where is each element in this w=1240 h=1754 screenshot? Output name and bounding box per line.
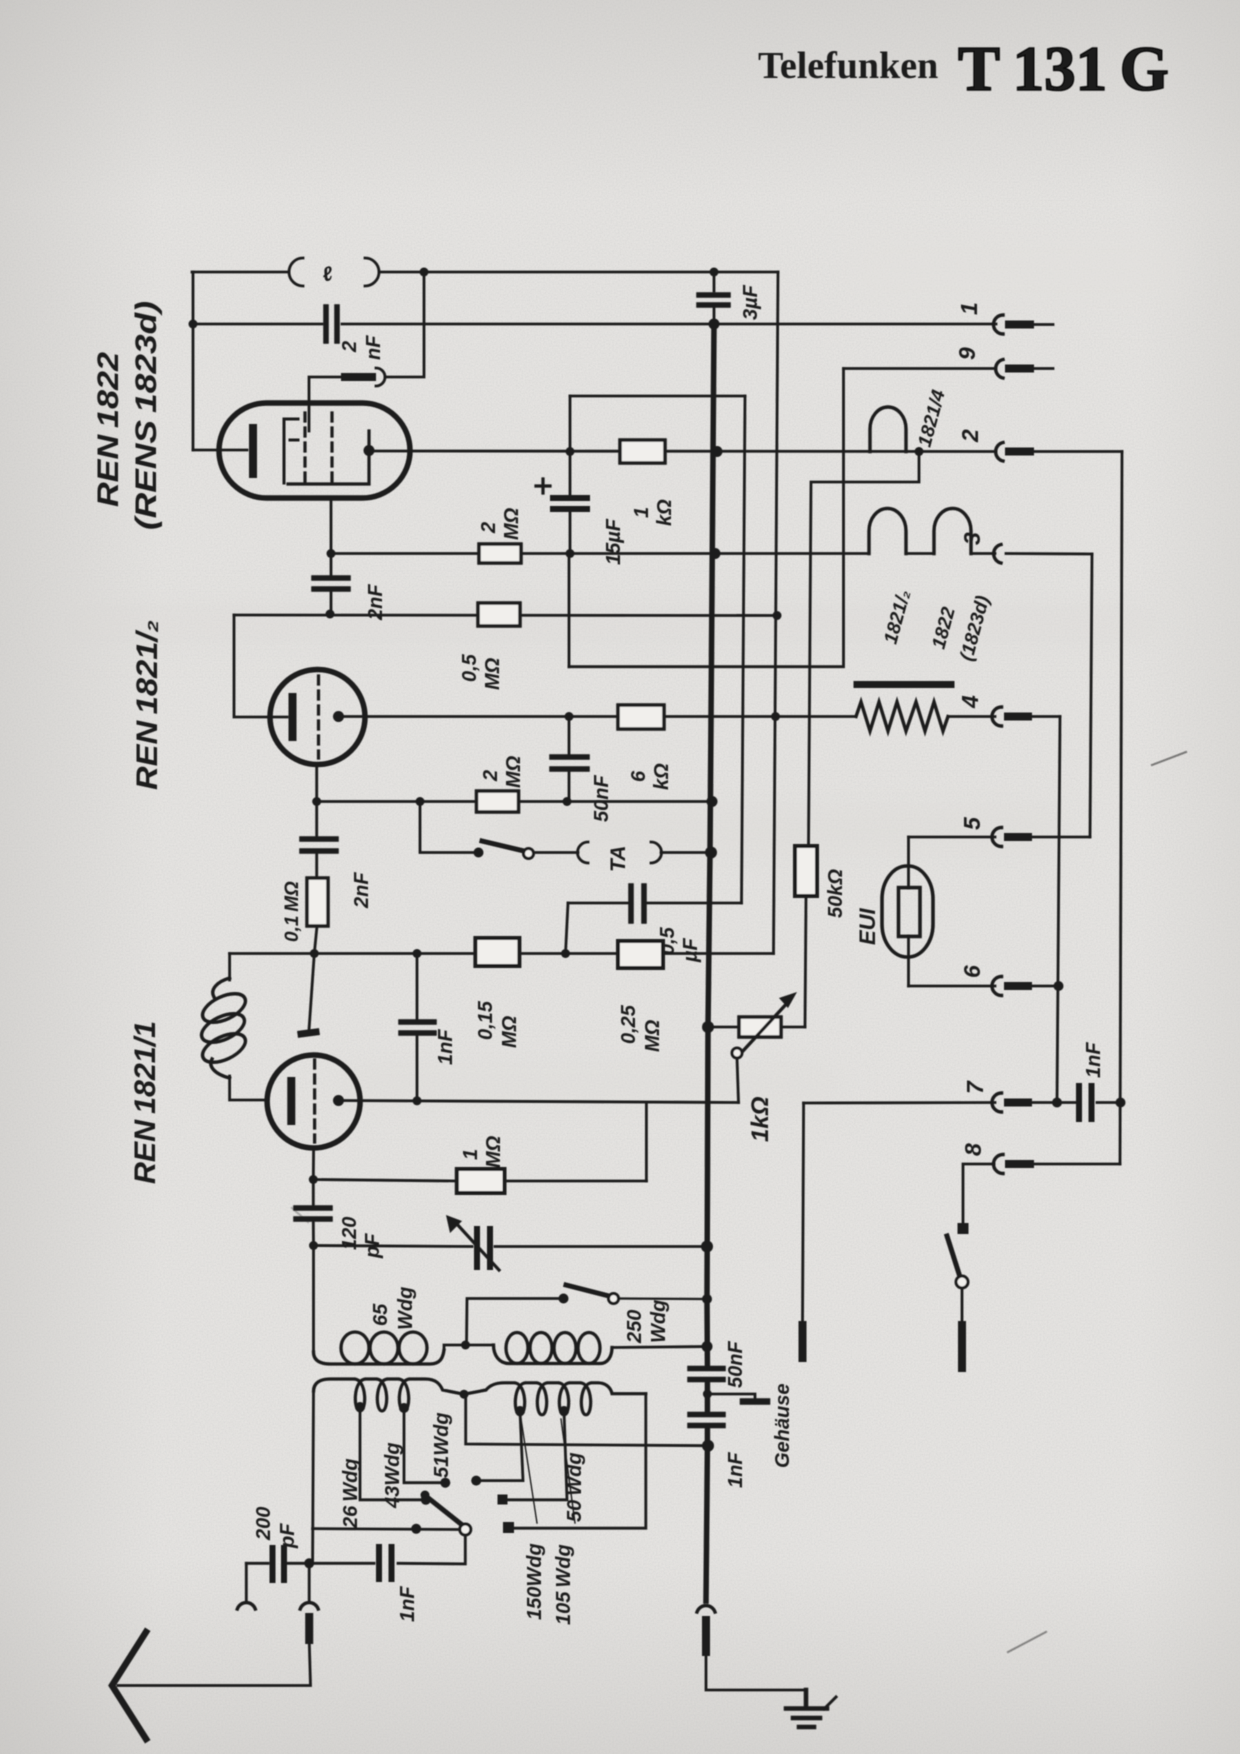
resistor 6kohm bbox=[618, 705, 664, 729]
node anode rail 1k left bbox=[566, 447, 575, 456]
wire heater rail bbox=[331, 552, 995, 555]
capacitor 1nF bus plates bbox=[690, 1415, 723, 1426]
node contact 26wdg bbox=[421, 1495, 431, 1505]
variable capacitor plates bbox=[477, 1229, 490, 1267]
svg-text:1nF: 1nF bbox=[1083, 1042, 1105, 1078]
svg-text:MΩ: MΩ bbox=[483, 1135, 505, 1168]
switch mains lever bbox=[947, 1236, 960, 1277]
socket 6 arc bbox=[992, 977, 1002, 996]
wire EVI bottom lead bbox=[907, 936, 910, 986]
wire bus main bbox=[706, 324, 714, 1601]
svg-text:150Wdg: 150Wdg bbox=[524, 1543, 546, 1620]
wire TA pivot to jack bbox=[534, 851, 578, 854]
svg-text:pF: pF bbox=[277, 1523, 299, 1549]
svg-text:2nF: 2nF bbox=[351, 872, 373, 909]
node switch2 bus bbox=[702, 1294, 712, 1304]
svg-text:(RENS 1823d): (RENS 1823d) bbox=[130, 301, 163, 530]
jack L right arc bbox=[365, 258, 379, 286]
svg-text:50nF: 50nF bbox=[725, 1341, 747, 1388]
wire tube3 bottom lead bbox=[312, 1148, 315, 1180]
node grid rail3 0,5uF bbox=[561, 949, 570, 958]
wire chassis lead bbox=[706, 1652, 806, 1690]
node 6k left junction bbox=[565, 712, 574, 721]
capacitor 50nF bus plates bbox=[690, 1369, 723, 1380]
wire 250wdg to bus bbox=[612, 1347, 707, 1348]
svg-text:7: 7 bbox=[962, 1080, 988, 1094]
wire TA switch branch bbox=[420, 802, 479, 853]
resistor 0,25Mohm bbox=[618, 941, 663, 968]
node bus pot bbox=[702, 1021, 714, 1033]
potentiometer arrow bbox=[742, 1000, 790, 1052]
socket 8 pin bbox=[1009, 1160, 1030, 1168]
grid cap jack arc bbox=[376, 368, 385, 386]
socket 7 pin bbox=[1008, 1099, 1028, 1107]
svg-text:8: 8 bbox=[960, 1143, 986, 1156]
node 1nF anode rail bbox=[413, 1096, 422, 1105]
switch1 lever tip bbox=[421, 1491, 430, 1500]
svg-text:2: 2 bbox=[480, 770, 502, 782]
node tube2 grid-leak junction bbox=[312, 797, 321, 806]
svg-text:1: 1 bbox=[956, 302, 982, 315]
wire tube2 bottom lead bbox=[315, 765, 318, 802]
svg-text:T 131 G: T 131 G bbox=[958, 34, 1169, 104]
svg-text:5: 5 bbox=[959, 816, 985, 830]
capacitor 2nF second plates bbox=[314, 578, 348, 589]
potentiometer arrowhead bbox=[779, 992, 797, 1008]
switch1 lever bbox=[427, 1497, 461, 1524]
heater coil 1821-4 bbox=[870, 407, 906, 452]
wire heater drop to frame bbox=[568, 554, 571, 667]
switch1 pivot bbox=[460, 1524, 471, 1535]
node 120pF junction bbox=[309, 1175, 318, 1184]
wire 50k feed from heater node bbox=[809, 452, 920, 847]
wire tuning rail bbox=[314, 1246, 708, 1247]
wire zigzag rail left bbox=[776, 715, 857, 718]
wire socket3 drop bbox=[1090, 554, 1092, 837]
node second rail bus bbox=[709, 319, 720, 330]
svg-text:EUI: EUI bbox=[855, 907, 880, 945]
capacitor 3uF plates bbox=[699, 295, 728, 305]
capacitor 1nF t7 plates bbox=[1079, 1086, 1092, 1119]
svg-text:50kΩ: 50kΩ bbox=[825, 869, 847, 918]
socket chassis pin bbox=[702, 1620, 710, 1652]
capacitor 2nF top plates bbox=[326, 307, 337, 341]
svg-text:REN 1821/₂: REN 1821/₂ bbox=[131, 620, 164, 790]
wire zigzag to socket4 bbox=[948, 715, 995, 718]
wire grid frame left bbox=[234, 615, 287, 717]
resistor mains zigzag bbox=[856, 702, 948, 731]
tube EVI envelope bbox=[882, 866, 933, 957]
tube3 grid cap tick bbox=[301, 1032, 316, 1034]
artifact pencil mark 2 bbox=[1008, 1632, 1046, 1652]
svg-text:200: 200 bbox=[253, 1507, 275, 1541]
coil 26-43-51Wdg bbox=[314, 1379, 465, 1411]
switch TA lever bbox=[482, 841, 524, 851]
wire loop right vertical bbox=[742, 396, 746, 903]
capacitor 50nF plates bbox=[552, 757, 587, 769]
wire grid rail3 bbox=[230, 952, 774, 955]
wire grid rail 0,5M bbox=[234, 614, 777, 617]
socket 6 pin bbox=[1008, 982, 1028, 990]
socket 1 tail bbox=[1030, 323, 1053, 326]
svg-text:1nF: 1nF bbox=[725, 1452, 747, 1488]
socket chassis arc bbox=[697, 1606, 715, 1612]
antenna plug pin bbox=[305, 1617, 313, 1640]
capacitor 120pF plates bbox=[296, 1208, 330, 1219]
wire top rail right bbox=[379, 271, 778, 274]
socket 1 pin bbox=[1009, 321, 1030, 329]
wire antenna jack drop bbox=[308, 1563, 311, 1600]
svg-text:0,15: 0,15 bbox=[475, 1000, 497, 1040]
wire 2Mohm rail bbox=[317, 800, 712, 803]
svg-text:MΩ: MΩ bbox=[642, 1019, 664, 1052]
svg-text:1: 1 bbox=[631, 507, 653, 518]
wire anode rail to socket2 bbox=[369, 450, 996, 453]
potentiometer 1kohm body bbox=[739, 1017, 781, 1037]
node tube3 anode bbox=[333, 1095, 344, 1106]
socket 3 arc bbox=[994, 545, 1001, 564]
resistor 2Mohm top bbox=[479, 544, 521, 563]
node gehaeuse junction bbox=[703, 1390, 712, 1399]
tube REN1821-2 envelope bbox=[270, 670, 365, 765]
socket 7 arc bbox=[992, 1093, 1002, 1112]
svg-text:MΩ: MΩ bbox=[503, 755, 525, 788]
wire 50k bottom to pot bbox=[805, 896, 806, 1027]
coil 65Wdg bbox=[314, 1332, 445, 1364]
wire bus top segment bbox=[713, 272, 716, 324]
svg-text:3µF: 3µF bbox=[740, 284, 762, 320]
wire 120pF leads bbox=[312, 1180, 315, 1246]
wire gehaeuse branch bbox=[707, 1394, 755, 1399]
node contact 105wdg bbox=[498, 1495, 508, 1505]
svg-text:2: 2 bbox=[478, 522, 500, 534]
svg-text:9: 9 bbox=[954, 347, 980, 360]
resistor 2Mohm second bbox=[477, 791, 519, 812]
node TA switch contact bbox=[474, 848, 484, 858]
wire 1Mohm rail bbox=[313, 1180, 646, 1182]
resistor 1kohm anode bbox=[620, 440, 665, 463]
socket 8 arc bbox=[994, 1155, 1004, 1174]
wire bus to pot bbox=[708, 1026, 739, 1029]
socket 2 arc bbox=[996, 443, 1003, 462]
svg-text:51Wdg: 51Wdg bbox=[431, 1412, 453, 1478]
wire 0,1Mohm to grid rail bbox=[314, 926, 317, 954]
svg-text:Wdg: Wdg bbox=[395, 1287, 417, 1330]
resistor 0,5Mohm bbox=[478, 603, 520, 626]
capacitor 15uF plates bbox=[553, 498, 587, 509]
variable capacitor arrowhead bbox=[446, 1215, 462, 1233]
wire terminal5 bbox=[909, 836, 996, 839]
socket 9 tail bbox=[1030, 367, 1053, 370]
wire antenna lead bbox=[118, 1640, 311, 1686]
node lower coils link bbox=[460, 1390, 469, 1399]
svg-text:REN 1822: REN 1822 bbox=[92, 352, 125, 507]
switch TA pivot bbox=[524, 849, 534, 859]
socket 9 arc bbox=[996, 360, 1003, 379]
node terminal2 heater junction bbox=[915, 447, 924, 456]
wire tube1 cathode lead bbox=[193, 449, 247, 452]
capacitor 1nF antenna plates bbox=[379, 1547, 392, 1579]
svg-text:0,1 MΩ: 0,1 MΩ bbox=[282, 881, 303, 942]
jack antenna right arc bbox=[300, 1603, 318, 1609]
socket 6 tail bbox=[1028, 985, 1059, 988]
svg-text:Gehäuse: Gehäuse bbox=[772, 1384, 794, 1468]
tube1 grid dashed lines bbox=[305, 413, 332, 488]
socket 4 pin bbox=[1008, 713, 1028, 721]
node top bus junction bbox=[710, 268, 719, 277]
switch mains contact bbox=[958, 1223, 969, 1234]
wire 65wdg to node bbox=[444, 1345, 494, 1349]
svg-text:105 Wdg: 105 Wdg bbox=[553, 1544, 575, 1625]
heater coil 1822 bbox=[934, 508, 971, 553]
node tube1 anode bbox=[364, 445, 375, 456]
wire pot wiper drop bbox=[737, 1058, 739, 1103]
node tuning rail bus bbox=[701, 1241, 713, 1253]
wire terminal6 bbox=[909, 985, 996, 988]
wire switch mains lead bbox=[961, 1288, 964, 1325]
svg-text:6: 6 bbox=[628, 770, 650, 782]
wire tap2 43wdg bbox=[404, 1408, 445, 1483]
resistor 1Mohm bbox=[457, 1169, 505, 1193]
coil 250Wdg bbox=[494, 1333, 613, 1364]
label plus bbox=[536, 479, 550, 493]
capacitor 1nF tube3 plates bbox=[401, 1022, 434, 1033]
tube1 anode structure bbox=[288, 431, 369, 484]
wire tap 105wdg bbox=[503, 1411, 567, 1500]
wire 15uF branch vertical bbox=[569, 396, 572, 554]
wire right top corner down bbox=[774, 272, 779, 954]
node second rail left bbox=[189, 320, 198, 329]
svg-text:1nF: 1nF bbox=[397, 1586, 419, 1622]
wire 1k-15uF top loop bbox=[570, 395, 745, 398]
node zigzag rail T bbox=[771, 712, 780, 721]
svg-text:nF: nF bbox=[363, 335, 385, 360]
node heater bus junction bbox=[710, 548, 721, 559]
node antenna rail junction bbox=[304, 1558, 314, 1568]
switch mains stub bbox=[958, 1325, 966, 1368]
svg-text:REN 1821/1: REN 1821/1 bbox=[129, 1021, 162, 1184]
node heater-15uF junction bbox=[566, 549, 575, 558]
wire 200pF jack drop bbox=[245, 1563, 248, 1600]
variable capacitor arrow bbox=[455, 1222, 499, 1270]
svg-text:MΩ: MΩ bbox=[501, 507, 523, 540]
tube REN1821-1 envelope bbox=[267, 1055, 360, 1148]
socket 3 tail bbox=[1006, 552, 1092, 555]
tube1 cathode bar bbox=[249, 428, 257, 474]
wire top rail left bbox=[192, 271, 289, 274]
wire switch2 pivot to bus bbox=[619, 1297, 707, 1300]
node 2Mohm rail left corner bbox=[416, 797, 425, 806]
wire grid cap vertical from top rail bbox=[385, 272, 424, 377]
node TA bus bbox=[705, 847, 717, 859]
artifact pencil mark 1 bbox=[1152, 752, 1186, 765]
svg-text:Wdg: Wdg bbox=[648, 1300, 670, 1343]
node 65wdg right bbox=[461, 1341, 470, 1350]
jack TA left arc bbox=[578, 842, 589, 863]
svg-text:1: 1 bbox=[460, 1149, 482, 1160]
wire right edge vertical t2 bbox=[1120, 452, 1122, 1165]
wire terminal8 rail bbox=[1030, 1163, 1120, 1166]
wire lower coil left drop bbox=[311, 1391, 315, 1563]
jack antenna left arc bbox=[237, 1603, 255, 1609]
svg-text:6: 6 bbox=[959, 965, 985, 978]
svg-text:0,25: 0,25 bbox=[618, 1004, 640, 1044]
capacitor 200pF plates bbox=[273, 1548, 285, 1580]
wire TA to bus bbox=[661, 851, 711, 854]
tube3 cathode bar bbox=[287, 1081, 295, 1121]
wire tap 150wdg bbox=[476, 1411, 523, 1481]
wire sockets456 vertical bbox=[1057, 717, 1060, 1103]
node 2Mohm rail bus bbox=[707, 796, 718, 807]
svg-text:50nF: 50nF bbox=[591, 775, 613, 822]
svg-text:0,5: 0,5 bbox=[459, 653, 481, 682]
socket 4 arc bbox=[992, 707, 1002, 726]
antenna symbol bbox=[112, 1632, 146, 1739]
earth ground bbox=[786, 1690, 827, 1727]
resistor 50kohm bbox=[795, 846, 817, 896]
node switch2 contact bbox=[559, 1294, 569, 1304]
wire socket8 to switch bbox=[963, 1164, 994, 1225]
tube1 screen bracket bbox=[284, 419, 298, 483]
EVI inner element bbox=[899, 888, 921, 937]
wire 1nF branch bbox=[416, 954, 419, 1101]
wire 0,5uF rail bbox=[568, 902, 742, 905]
node link rail bus bbox=[702, 1440, 714, 1452]
tap 150Wdg blob bbox=[515, 1406, 525, 1416]
tube3 grid dashed bbox=[313, 1060, 316, 1142]
node 1nF t7 rail bbox=[1116, 1098, 1126, 1108]
resistor 0,15Mohm bbox=[475, 938, 519, 966]
node grid rail junction bbox=[326, 610, 335, 619]
earth ground tick bbox=[824, 1697, 836, 1709]
svg-text:TA: TA bbox=[607, 846, 630, 872]
svg-text:Telefunken: Telefunken bbox=[758, 45, 938, 87]
wire 50nF branch bbox=[568, 717, 571, 802]
wire anode rail tube3 bbox=[339, 1101, 739, 1103]
capacitor 2nF grid plates bbox=[302, 839, 336, 851]
svg-text:250: 250 bbox=[624, 1310, 646, 1344]
node 0,5Mohm rail T bbox=[773, 611, 782, 620]
node socket7 junction bbox=[1052, 1098, 1062, 1108]
switch2 pivot bbox=[609, 1294, 619, 1304]
node grid rail3 gridleak bbox=[310, 949, 319, 958]
artifact smudge bbox=[292, 1208, 308, 1222]
wire tube2 anode rail bbox=[339, 715, 776, 718]
socket 4 tail bbox=[1028, 715, 1060, 718]
socket 5 pin bbox=[1008, 833, 1028, 841]
svg-text:3: 3 bbox=[959, 532, 985, 545]
wire switch2 riser bbox=[467, 1299, 564, 1346]
node zigzag rail junction left bbox=[568, 715, 571, 718]
resistor 0,1Mohm bbox=[307, 878, 328, 926]
switch2 lever bbox=[566, 1285, 609, 1296]
socket 2 pin bbox=[1009, 448, 1030, 456]
socket 5 tail bbox=[1028, 836, 1090, 839]
wire second rail bbox=[192, 323, 996, 326]
wire link rail to bus bbox=[466, 1394, 708, 1446]
tube2 grid dashed bbox=[317, 676, 320, 758]
socket 2 tail to corner bbox=[1030, 450, 1122, 453]
wire antenna rail bbox=[246, 1535, 465, 1564]
svg-text:kΩ: kΩ bbox=[651, 763, 673, 790]
capacitor 0,5uF plates bbox=[631, 886, 644, 921]
wire grid cap to tube bbox=[309, 377, 345, 431]
svg-text:kΩ: kΩ bbox=[654, 499, 676, 526]
node switch1 feed contact bbox=[411, 1524, 421, 1534]
node anode rail bus bbox=[712, 446, 723, 457]
node tube2 anode bbox=[333, 711, 344, 722]
socket 7 tail bbox=[1028, 1101, 1121, 1104]
svg-text:1kΩ: 1kΩ bbox=[747, 1096, 774, 1142]
tube REN1822 envelope bbox=[219, 403, 410, 498]
node 250wdg bus bbox=[702, 1341, 713, 1352]
oscillator coil frame top bbox=[228, 954, 231, 981]
wire 1Mohm riser bbox=[645, 1103, 648, 1182]
wire 2nF grid leads bbox=[315, 802, 318, 879]
node top grid junction bbox=[420, 268, 429, 277]
wire gridleak to tube3 cap bbox=[309, 954, 314, 1031]
grid cap plug pin bbox=[345, 373, 372, 381]
svg-text:1nF: 1nF bbox=[435, 1029, 457, 1065]
coil 150-105-50Wdg bbox=[464, 1383, 646, 1415]
potentiometer wiper circle bbox=[732, 1048, 742, 1058]
node tuning rail left bbox=[309, 1241, 318, 1250]
wire switch1 feed bbox=[313, 1527, 459, 1531]
chassis pin stub bbox=[799, 1325, 807, 1358]
svg-text:4: 4 bbox=[957, 695, 983, 709]
node socket6 junction bbox=[1054, 981, 1064, 991]
node heater rail left bbox=[327, 549, 336, 558]
svg-text:2: 2 bbox=[957, 429, 983, 443]
wire terminal7 rail bbox=[804, 1101, 995, 1104]
svg-text:MΩ: MΩ bbox=[499, 1015, 521, 1048]
svg-text:2: 2 bbox=[339, 341, 361, 353]
leader line 105wdg bbox=[561, 1419, 575, 1523]
socket 1 arc bbox=[994, 315, 1004, 334]
gehaeuse chassis bar bbox=[743, 1398, 767, 1405]
svg-text:µF: µF bbox=[680, 937, 702, 963]
svg-text:15µF: 15µF bbox=[603, 518, 625, 565]
node contact 150wdg bbox=[471, 1476, 481, 1486]
heater coil 1821-2 bbox=[869, 508, 906, 553]
jack TA right arc bbox=[651, 842, 662, 863]
tap 26Wdg blob bbox=[355, 1402, 365, 1412]
node contact 43wdg bbox=[440, 1478, 450, 1488]
jack L left arc bbox=[289, 258, 303, 286]
tap 43Wdg blob bbox=[399, 1403, 409, 1413]
leader line 150wdg bbox=[521, 1419, 537, 1523]
wire terminal9 frame bbox=[569, 369, 844, 667]
wire pot to 50k bbox=[781, 1026, 805, 1029]
switch mains pivot bbox=[956, 1276, 968, 1288]
socket 5 arc bbox=[992, 828, 1002, 847]
wire tap1 26wdg bbox=[360, 1407, 426, 1500]
wire terminal9 bbox=[844, 367, 997, 370]
node contact 50wdg bbox=[503, 1522, 514, 1533]
zigzag top bar bbox=[857, 681, 951, 688]
wire 65wdg riser bbox=[312, 1246, 315, 1353]
svg-text:MΩ: MΩ bbox=[482, 657, 504, 690]
wire 2nF to grid rail bbox=[330, 554, 333, 615]
wire bus socket gap bbox=[705, 1600, 708, 1603]
wire 0,5uF left drop bbox=[566, 903, 569, 954]
oscillator coil frame bottom bbox=[230, 1076, 267, 1100]
tube2 cathode bar bbox=[289, 697, 297, 737]
oscillator coil loops bbox=[197, 978, 249, 1078]
wire EVI top lead bbox=[907, 837, 910, 888]
wire left vertical bbox=[192, 272, 195, 450]
node grid rail3 1nF bbox=[413, 949, 422, 958]
